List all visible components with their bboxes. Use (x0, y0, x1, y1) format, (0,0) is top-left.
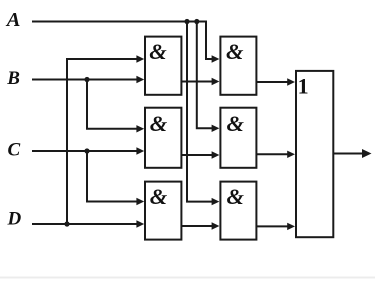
AND gate U4 (inputs A, U1 out) (220, 37, 256, 95)
wire U5 output to OR gate middle input (256, 151, 295, 158)
wire U3 output to U6 lower input (181, 222, 219, 229)
input label B (6, 68, 20, 89)
wire U2 output to U5 lower input (181, 151, 219, 158)
AND gate U5 (inputs A, U2 out) (220, 108, 256, 168)
junction dot on A wire (feeds U5) (194, 19, 199, 24)
wire C into gate U2 lower input (32, 147, 144, 154)
OR gate U7 (label 1) (296, 71, 333, 237)
wire C branch down to gate U3 top input (87, 151, 144, 205)
junction dot on A wire (feeds U6) (184, 19, 189, 24)
svg-text:B: B (6, 68, 20, 89)
input label A (5, 9, 21, 31)
wire D branch up to gate U1 top input (67, 55, 144, 224)
svg-text:D: D (7, 209, 22, 230)
wire U1 output to U4 lower input (181, 78, 219, 85)
AND gate U1 (inputs D,B) (145, 37, 181, 95)
svg-text:1: 1 (298, 73, 309, 98)
junction dot on C wire (84, 148, 89, 153)
wire D into gate U3 lower input (32, 220, 144, 227)
AND gate U6 (inputs A, U3 out) (220, 182, 256, 240)
svg-text:&: & (226, 39, 244, 64)
AND gate U2 (inputs B,C) (145, 108, 181, 168)
input label D (7, 209, 22, 230)
svg-text:&: & (227, 111, 245, 136)
wire B into gate U1 lower input (32, 76, 144, 83)
wire A horizontal then down into gate U4 top input (32, 22, 219, 63)
wire U6 output to OR gate bottom input (256, 223, 295, 230)
svg-text:C: C (8, 139, 21, 160)
svg-text:&: & (150, 111, 168, 136)
AND gate U3 (inputs C,D) (145, 182, 181, 240)
svg-text:&: & (227, 184, 245, 209)
junction dot on D wire (64, 221, 69, 226)
svg-text:&: & (149, 39, 167, 64)
faint page rule at bottom (0, 277, 375, 279)
input label C (8, 139, 21, 160)
wire A branch down to gate U6 top input (187, 22, 219, 206)
svg-text:A: A (5, 9, 21, 31)
svg-text:&: & (150, 184, 168, 209)
output wire with arrow (334, 149, 372, 158)
junction dot on B wire (84, 77, 89, 82)
wire B branch down to gate U2 top input (87, 80, 144, 133)
wire U4 output to OR gate top input (256, 78, 295, 85)
wire A branch down to gate U5 top input (197, 22, 220, 133)
